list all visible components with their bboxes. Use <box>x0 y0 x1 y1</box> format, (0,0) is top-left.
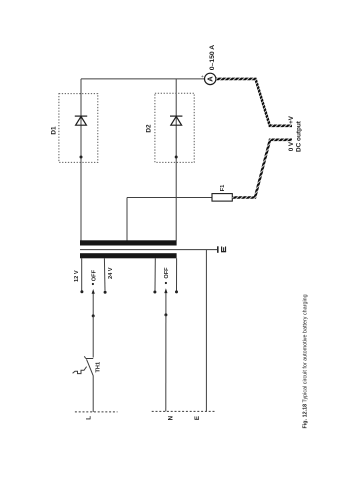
svg-text:24 V: 24 V <box>108 267 114 279</box>
mains terminal dashed line L <box>75 411 118 413</box>
svg-text:N: N <box>167 415 174 420</box>
OFF contact right <box>165 282 167 284</box>
wire earth from screen to E terminal <box>205 250 207 412</box>
svg-text:TH1: TH1 <box>96 362 102 373</box>
rectifier box D1 (dashed enclosure) <box>59 94 98 163</box>
ammeter M1 <box>205 73 216 84</box>
svg-text:+V: +V <box>288 115 295 124</box>
rectifier box D2 (dashed enclosure) <box>155 93 194 162</box>
transformer T1 secondary winding (top bar) <box>80 240 177 245</box>
wire live from switch to TH1 <box>92 316 94 358</box>
cable +V output (thick) <box>216 79 292 126</box>
wire center tap to fuse <box>127 197 212 199</box>
svg-text:D1: D1 <box>51 126 58 135</box>
wire D1 vertical branch <box>80 79 82 241</box>
svg-text:0 V: 0 V <box>288 141 295 151</box>
svg-text:DC output: DC output <box>296 120 303 152</box>
svg-text:12 V: 12 V <box>74 270 80 282</box>
screen earth terminal tick <box>217 246 219 253</box>
primary tap 24V <box>103 258 106 291</box>
diode D2 <box>170 116 182 125</box>
thermal cutout TH1 <box>73 356 94 376</box>
svg-text:E: E <box>194 416 201 420</box>
wire D2 vertical branch <box>175 79 177 241</box>
junction dot D2 output <box>175 156 178 159</box>
wire TH1 to L terminal <box>92 376 94 412</box>
transformer T1 primary winding (bottom bar) <box>80 253 177 258</box>
selector switch arm right (arrow) <box>165 291 167 315</box>
wire center tap vertical <box>126 198 128 241</box>
primary tap right end <box>176 258 178 290</box>
svg-text:OFF: OFF <box>164 267 170 279</box>
svg-text:L: L <box>85 416 92 420</box>
svg-text:Fig. 12.18 Typical circuit fo: Fig. 12.18 Typical circuit for automotiv… <box>303 294 309 428</box>
junction dot D1 output <box>80 156 83 159</box>
svg-text:D2: D2 <box>145 124 152 133</box>
svg-text:+: + <box>200 75 205 78</box>
selector switch arm left (arrow) <box>92 292 94 316</box>
diode D1 <box>75 116 87 125</box>
primary tap 12V <box>81 258 83 290</box>
svg-text:OFF: OFF <box>91 269 97 281</box>
cable 0V output (thick) <box>232 140 292 198</box>
fuse F1 <box>212 194 232 202</box>
wire neutral from switch to N terminal <box>165 315 167 412</box>
svg-text:A: A <box>206 76 215 82</box>
svg-text:F1: F1 <box>220 184 226 192</box>
mains terminal dashed line N E <box>152 410 216 412</box>
label E (screen earth) <box>221 247 226 253</box>
svg-text:0–150 A: 0–150 A <box>209 45 216 71</box>
transformer screen line <box>80 249 217 251</box>
wire top horizontal from D1 to ammeter <box>81 78 205 80</box>
primary tap left (right switch group) <box>154 258 156 291</box>
OFF contact left <box>92 283 94 285</box>
